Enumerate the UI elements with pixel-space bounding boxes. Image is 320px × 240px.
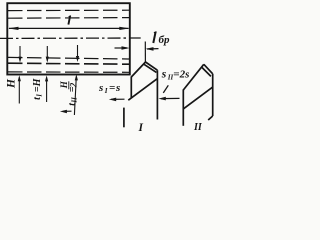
svg-text:2: 2	[68, 82, 78, 88]
svg-text:I: I	[104, 87, 108, 95]
svg-text:s: s	[161, 69, 167, 81]
svg-text:=H: =H	[32, 77, 43, 92]
svg-text:s: s	[115, 82, 120, 94]
svg-text:s: s	[98, 82, 103, 94]
svg-text:I: I	[138, 122, 144, 134]
svg-text:=: =	[109, 82, 115, 94]
svg-text:бр: бр	[159, 34, 170, 46]
svg-text:I: I	[36, 94, 44, 98]
svg-text:II: II	[193, 122, 203, 133]
svg-text:H: H	[5, 78, 17, 89]
svg-text:II: II	[71, 97, 79, 104]
svg-text:=2s: =2s	[173, 69, 189, 81]
